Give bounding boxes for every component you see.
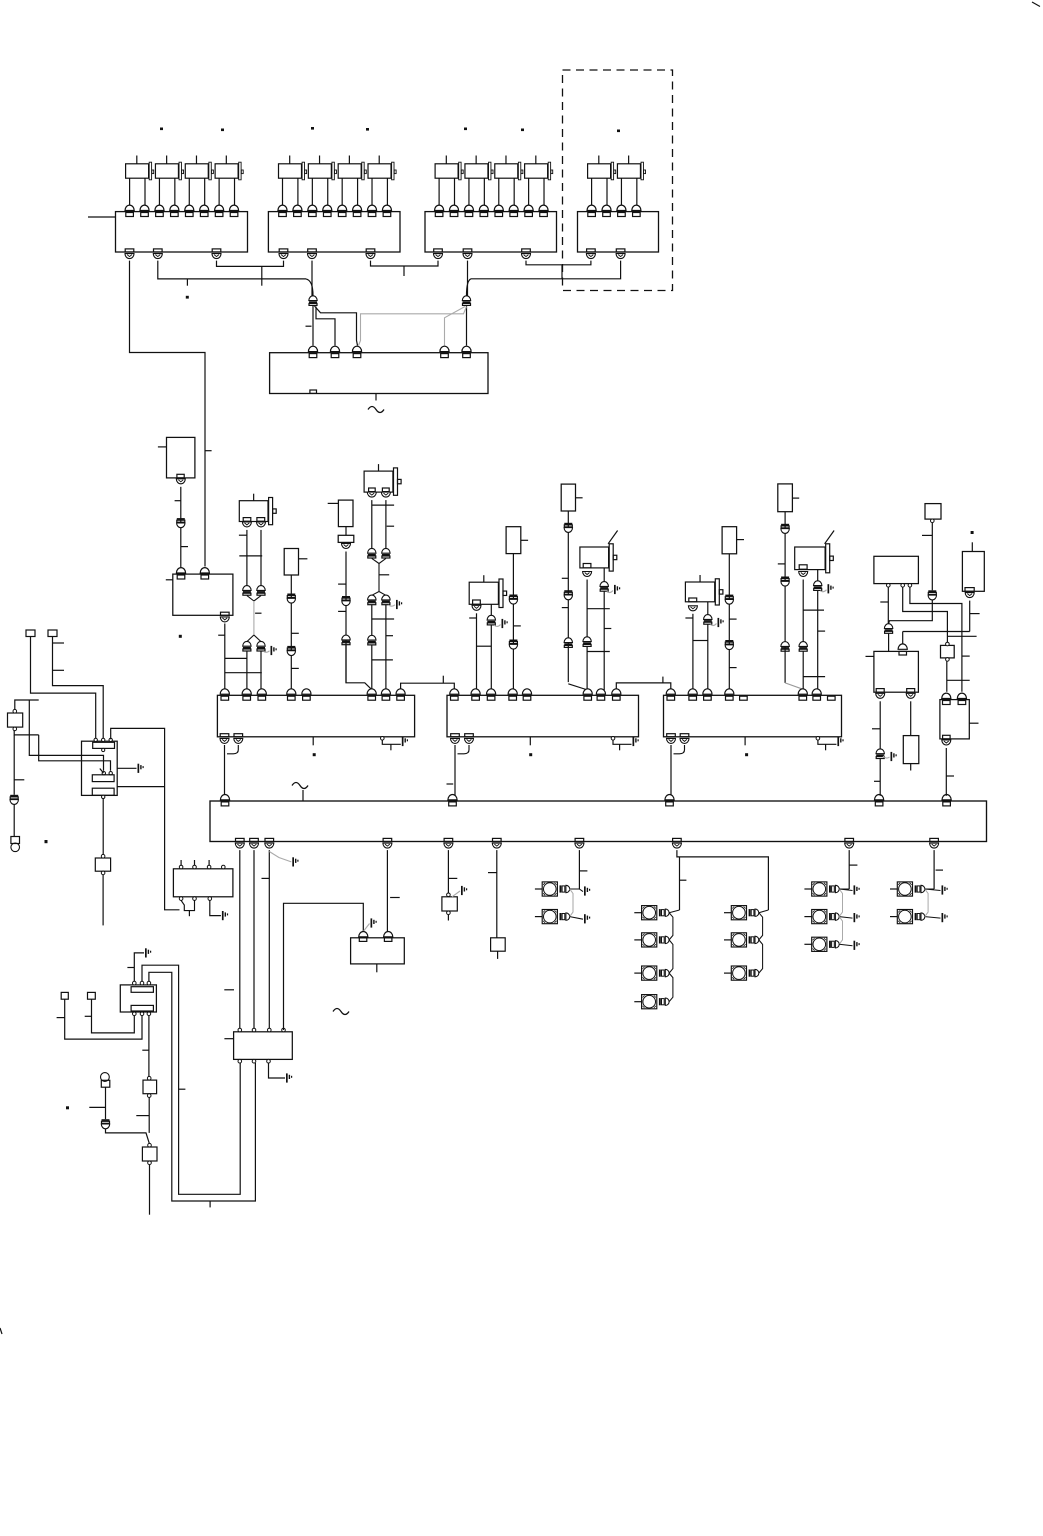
injector/solenoid bank3-2: [465, 164, 488, 178]
ground at ME: [710, 624, 716, 626]
MA right leg: [260, 530, 262, 586]
box F3: [491, 938, 506, 951]
LB top pin 1: [176, 568, 185, 573]
M1 bottom V merge: [224, 745, 226, 796]
MF bottom pin: [799, 565, 807, 569]
g4 ground 1: [925, 889, 941, 891]
block B3 (right relay): [874, 651, 919, 692]
tick on ECU column wire: [205, 450, 212, 452]
tick: [962, 655, 970, 657]
tick: [729, 618, 736, 620]
M2 bottom stub: [529, 737, 531, 746]
L3 c3 loop to L2 pin2: [149, 972, 256, 1201]
block L3 (combination switch): [120, 985, 156, 1012]
B2 pin3: [908, 584, 912, 588]
MC bottom pin: [473, 600, 481, 604]
connector MF-L: [799, 642, 807, 647]
LB left stub: [166, 579, 173, 581]
tick: [936, 869, 943, 871]
connector on RL5: [564, 523, 572, 525]
H1 drop to B3 top pin: [902, 632, 904, 644]
block X1 bottom pin 2: [154, 249, 163, 252]
g2b chain wire: [759, 910, 769, 913]
M1 bottom pin 2: [234, 734, 243, 737]
connector on RL6: [725, 595, 733, 597]
bullet L tail to socket 2: [316, 307, 335, 346]
motor MF (with lever): [795, 547, 825, 570]
box S2: [95, 858, 110, 871]
block X4 bottom pin 2: [616, 249, 625, 252]
inline connector on B1 wire: [928, 590, 936, 592]
g3 ground 3: [839, 944, 852, 946]
RL4 right stub: [521, 539, 528, 541]
B5 bottom pin: [943, 735, 951, 739]
MD left leg: [586, 580, 588, 638]
MC right wire to M2 p3: [490, 625, 492, 690]
L3 c2 loop to L2 pin1: [142, 965, 240, 1194]
lamp wire to box B: [106, 1129, 150, 1144]
R1 bottom pin: [965, 588, 974, 592]
tick: [89, 1106, 105, 1108]
lamp g2b-1: [731, 906, 746, 920]
block X3 top pin 8: [539, 205, 548, 210]
horn chain wire: [13, 805, 15, 837]
g4 grey link: [925, 889, 928, 917]
M2 ground tail: [613, 740, 632, 744]
motor ME: [685, 582, 714, 602]
tick: [778, 563, 785, 565]
M1 top pin 3: [257, 689, 266, 694]
tick: [469, 617, 476, 619]
sensor RL3 (MAP sensor): [338, 500, 353, 526]
sensor RL4: [506, 527, 521, 554]
tick: [680, 879, 687, 881]
net M1p8 - M2p1: [401, 683, 455, 690]
MB wire to M1 p6: [371, 645, 373, 690]
S1 top stub wire: [15, 700, 39, 709]
block X1 top pin 7: [215, 205, 224, 210]
R1 top stub: [971, 542, 973, 551]
block X4 top pin 3: [617, 205, 626, 210]
tick: [946, 775, 954, 777]
left edge mark: [0, 1328, 2, 1334]
block X2 top pin 4: [323, 205, 332, 210]
bullet R grey tail to socket 4: [445, 307, 466, 346]
R1 wire down: [969, 601, 971, 632]
g3 feed joint: [839, 888, 849, 890]
tick: [142, 1049, 149, 1051]
inline connector on horn chain: [10, 795, 18, 797]
B2 pin1: [887, 584, 891, 588]
L2 pin4 wire to G1: [284, 903, 364, 1030]
M2 top pin 8: [612, 689, 621, 694]
R2 bottom stub: [910, 764, 912, 771]
M2 bottom pin 1: [451, 734, 460, 737]
M2 top pin 1: [450, 689, 459, 694]
M3 bottom V merge: [670, 745, 672, 796]
RL2 right stub: [299, 558, 308, 560]
M3 top pin 6: [798, 689, 807, 694]
bus wire 5 to box F2: [447, 850, 449, 893]
lamp g1-2: [542, 910, 557, 924]
bus top pin 4: [875, 795, 884, 800]
RL5 diagonal to M2 p6: [568, 684, 587, 690]
lamp g1-1: [542, 882, 557, 896]
label dot 5: [464, 128, 467, 131]
rung: [372, 504, 394, 506]
MD bottom pin: [583, 564, 591, 568]
injector/solenoid bank2-1: [279, 164, 302, 178]
M1 top pin 4: [287, 689, 296, 694]
block X2 top pin 1: [278, 205, 287, 210]
MF right leg: [817, 570, 819, 581]
RL6 wire: [728, 554, 730, 689]
RL5 wire: [567, 511, 569, 682]
MD right to M2 p7: [603, 592, 605, 691]
lamp group3 feed: [848, 850, 850, 889]
L3 bottom c1 wire to sq4: [92, 999, 135, 1033]
label dot 6: [521, 129, 524, 132]
MC right leg: [490, 604, 492, 615]
injector/solenoid bank3-3: [495, 164, 518, 178]
ME left leg: [692, 614, 694, 689]
tick: [922, 534, 932, 536]
B3 bottom pin L: [876, 689, 884, 693]
tick on socket1 wire: [306, 325, 312, 327]
tick: [387, 525, 394, 527]
g4 ground 2: [925, 917, 941, 919]
ground at MC: [494, 625, 501, 627]
terminal square sq2: [48, 630, 57, 637]
M3 ground tail: [818, 740, 837, 744]
M3 top pin 1: [666, 689, 675, 694]
terminal square sq3: [61, 992, 68, 999]
center block top pin 1: [308, 346, 317, 351]
g1 ground 1: [570, 889, 583, 892]
tick: [14, 779, 24, 781]
block X1 top pin 6: [200, 205, 209, 210]
center block top pin 3: [352, 346, 361, 351]
tick near fuse: [947, 635, 976, 637]
M2 top pin 7: [596, 689, 605, 694]
center block bottom stub: [375, 394, 377, 401]
lamp g2a-1: [642, 906, 657, 920]
bus top pin 2: [448, 795, 457, 800]
inline connector bullet L: [309, 296, 317, 301]
wavy mark ~ lower: [333, 1009, 349, 1015]
ground at MF-R: [820, 590, 826, 592]
L3 bottom c2 wire to sq3: [65, 999, 142, 1039]
lamp box: [101, 1080, 110, 1087]
B1 wire to bullet D1: [889, 600, 933, 624]
rung M1 p1-p3: [225, 672, 262, 674]
connector 2 on RL6: [725, 640, 733, 642]
rung p6-p7: [372, 659, 393, 661]
left block LB (relay box): [173, 574, 233, 615]
connector MD-R: [600, 582, 608, 587]
tick: [970, 613, 980, 615]
main relay R3: [82, 741, 118, 795]
bus bottom pin 8: [673, 838, 682, 841]
sensor RL5: [561, 484, 575, 511]
label dot 7: [617, 130, 620, 133]
S2 open wire down: [102, 875, 104, 926]
label dot 4: [366, 128, 369, 131]
L3 c1 riser to ground: [134, 953, 144, 981]
connector block M2: [447, 695, 639, 737]
M2 top pin 2: [471, 689, 480, 694]
g1 ground 2: [570, 917, 583, 920]
tick: [255, 612, 261, 614]
MB bottom pins: [369, 488, 376, 492]
injector/solenoid bank1-2: [155, 164, 178, 178]
MF right to M3 p7: [817, 591, 819, 690]
lamp g3-2: [812, 910, 827, 924]
net stub: [442, 676, 444, 684]
MF left to M3 p6: [802, 652, 804, 690]
RL6 right stub: [737, 539, 744, 541]
block X3 top pin 2: [449, 205, 458, 210]
block X3 bottom pin 1: [434, 249, 443, 252]
box F2: [442, 897, 457, 911]
F3 bottom stub: [497, 951, 499, 959]
M3 top pin 3: [703, 689, 712, 694]
MD right leg: [603, 568, 605, 582]
block X3 top pin 1: [435, 205, 444, 210]
g1 link grey: [570, 889, 573, 917]
L1 pin3 ground: [210, 900, 221, 915]
block X1 left stub: [88, 216, 116, 218]
horn box: [11, 837, 20, 844]
box B wire down: [149, 1165, 151, 1215]
connector MF-R: [814, 581, 822, 586]
M1 top pin 6: [367, 689, 376, 694]
tick: [390, 897, 400, 899]
RL3 wire corner to M1 p6: [346, 645, 372, 690]
V merge to single grey wire: [247, 596, 254, 601]
bulb lamp circle: [101, 1073, 110, 1082]
MA left leg: [246, 530, 248, 586]
center block bottom pin: [310, 390, 317, 393]
g3 ground 1: [839, 889, 852, 891]
tick: [181, 546, 188, 548]
M1 top pin 8: [396, 689, 405, 694]
net stub X2: [403, 266, 405, 276]
center block top pin 2: [330, 346, 339, 351]
S1 link 2: [39, 735, 111, 771]
block L2: [234, 1032, 293, 1060]
net M2p8 - M3p1: [616, 683, 671, 690]
sensor RL7: [778, 484, 793, 512]
bus wire 1 down to L2: [239, 850, 241, 1030]
ground at MB-4: [388, 605, 395, 606]
wire RL1 to left block pin1: [180, 487, 182, 567]
injector/solenoid bank4-1: [588, 164, 611, 178]
block X4 top pin 4: [632, 205, 641, 210]
small box B1 (top right): [925, 504, 941, 519]
M3 bottom stub: [744, 737, 746, 746]
center block top pin 4: [440, 346, 449, 351]
connector 2 on RL7: [781, 577, 789, 579]
MC left leg: [476, 613, 478, 690]
lamp g3-3: [812, 937, 827, 951]
ground at connector: [883, 756, 890, 758]
RL3 left stub: [328, 502, 339, 504]
RL5 right stub: [576, 497, 583, 499]
M3 top pin 8: [828, 696, 836, 700]
injector/solenoid bank2-3: [338, 164, 361, 178]
connector 2 on RL4: [509, 640, 517, 642]
B5 wire to bus: [945, 748, 947, 796]
tick: [448, 877, 457, 879]
connector block M1: [217, 695, 414, 737]
tick: [969, 722, 978, 724]
bus bottom pin 9: [845, 838, 854, 841]
lamp group1 feed: [578, 850, 580, 889]
lamp group4 feed: [933, 850, 935, 889]
B5 top pin2: [957, 693, 966, 698]
connector on B3 wire: [876, 749, 884, 754]
lamp group2 feed: [677, 850, 769, 910]
M1 top pin 7: [381, 689, 390, 694]
box B: [148, 1143, 152, 1147]
rung: [587, 608, 610, 610]
bus bottom pin 3: [265, 838, 274, 841]
wire block2 pin2 to bullet L: [311, 261, 313, 296]
M1 top pin 5: [302, 689, 311, 694]
tick: [262, 877, 270, 879]
connector pair MA-2: [257, 586, 265, 591]
connector MB-4: [382, 595, 390, 600]
B3 bottom pin R: [907, 689, 915, 693]
block X2 bottom pin 1: [279, 249, 288, 252]
block X1 top pin 4: [170, 205, 179, 210]
tick: [127, 967, 134, 969]
grey ground spur on wire3: [269, 852, 291, 862]
tick: [874, 780, 880, 782]
block L1: [173, 869, 233, 897]
block X2 top pin 5: [338, 205, 347, 210]
D1 to B3: [888, 634, 890, 652]
resistor R2: [903, 736, 919, 764]
wire block3 pin2 to bullet R: [467, 261, 469, 296]
M1 top pin 1: [220, 689, 229, 694]
injector connector block X3: [425, 212, 557, 252]
main harness bus bar: [210, 801, 987, 842]
RL7 right stub: [792, 497, 799, 499]
M2 bottom pin 2: [465, 734, 474, 737]
terminal square sq1: [26, 630, 35, 637]
bus bottom pin 10: [930, 838, 939, 841]
connector MA-4: [257, 641, 265, 646]
connector block M3: [664, 695, 842, 737]
bullet L tail to socket 1: [312, 306, 314, 346]
ME right leg: [707, 602, 709, 615]
tick: [179, 1088, 186, 1090]
B3 wire to bus: [879, 759, 881, 796]
S1 bottom wire: [14, 731, 39, 735]
RL4 wire: [512, 554, 514, 690]
box A: [147, 1076, 151, 1080]
tick: [53, 669, 65, 671]
connector 3 on RL5: [564, 638, 572, 643]
label dot right: [971, 531, 974, 534]
block G1: [351, 938, 405, 964]
injector/solenoid bank2-4: [368, 164, 391, 178]
injector connector block X4: [578, 212, 659, 252]
g3 grey link: [839, 917, 842, 945]
injector/solenoid bank1-3: [185, 164, 208, 178]
wavy mark ~ center: [368, 407, 384, 413]
wire block2 pin3 to block3 pin1: [371, 261, 439, 266]
tick: [218, 634, 225, 636]
block X2 top pin 3: [308, 205, 317, 210]
grey ground at F2: [452, 891, 460, 897]
block X3 top pin 3: [464, 205, 473, 210]
rung M1 p1-p2: [225, 657, 247, 659]
bus bottom pin 4: [383, 838, 392, 841]
block X3 top pin 5: [494, 205, 503, 210]
RL1 bottom pin: [177, 474, 184, 478]
connector on RL2 wire: [287, 594, 295, 596]
bus bottom pin 2: [250, 838, 259, 841]
ME right to M3 p3: [707, 625, 709, 690]
R3 pin3 wire to L1: [111, 728, 180, 909]
block X1 top pin 1: [125, 205, 134, 210]
tick: [488, 872, 497, 874]
page corner mark: [1032, 2, 1040, 7]
M3 bottom-right contact circle: [816, 737, 820, 741]
R3 bottom wire to S2: [102, 799, 104, 858]
tick: [239, 534, 247, 536]
tick: [136, 1115, 149, 1117]
connector pair MA-1: [243, 586, 251, 591]
M1 label dot: [313, 753, 316, 756]
motor MB (EGR solenoid): [364, 471, 393, 492]
split MB: [372, 592, 379, 596]
M2 label dot: [529, 753, 532, 756]
M1 bottom-right contact circle: [381, 737, 385, 741]
bullet D1: [884, 624, 892, 629]
tick: [57, 1017, 65, 1019]
rung: [693, 640, 708, 642]
horn circle: [11, 843, 20, 852]
RL7 wire: [784, 512, 786, 683]
center block top pin 5: [462, 346, 471, 351]
sensor RL6: [722, 527, 737, 554]
tick: [338, 610, 346, 612]
lamp g4-1: [897, 882, 912, 896]
block X1 bottom pin 3: [212, 249, 221, 252]
tick: [580, 870, 588, 872]
tick: [685, 617, 693, 619]
grey ground spur at G1 pin1: [363, 924, 369, 932]
label dot 1: [160, 128, 163, 131]
rung: [803, 609, 824, 611]
connector MC: [487, 615, 495, 620]
bullet R grey tail to socket 3: [359, 307, 467, 346]
R3 lower-right wire: [117, 786, 164, 788]
block X2 bottom pin 3: [366, 249, 375, 252]
block X2 top pin 7: [367, 205, 376, 210]
lamp wire down: [105, 1087, 107, 1119]
M2 top pin 4: [508, 689, 517, 694]
connector MD-L: [583, 637, 591, 642]
motor MC (purge solenoid): [469, 582, 498, 604]
sq2 wire to relay pin2: [53, 637, 104, 740]
bus bottom pin 5: [444, 838, 453, 841]
M3 top pin 5: [740, 696, 748, 700]
